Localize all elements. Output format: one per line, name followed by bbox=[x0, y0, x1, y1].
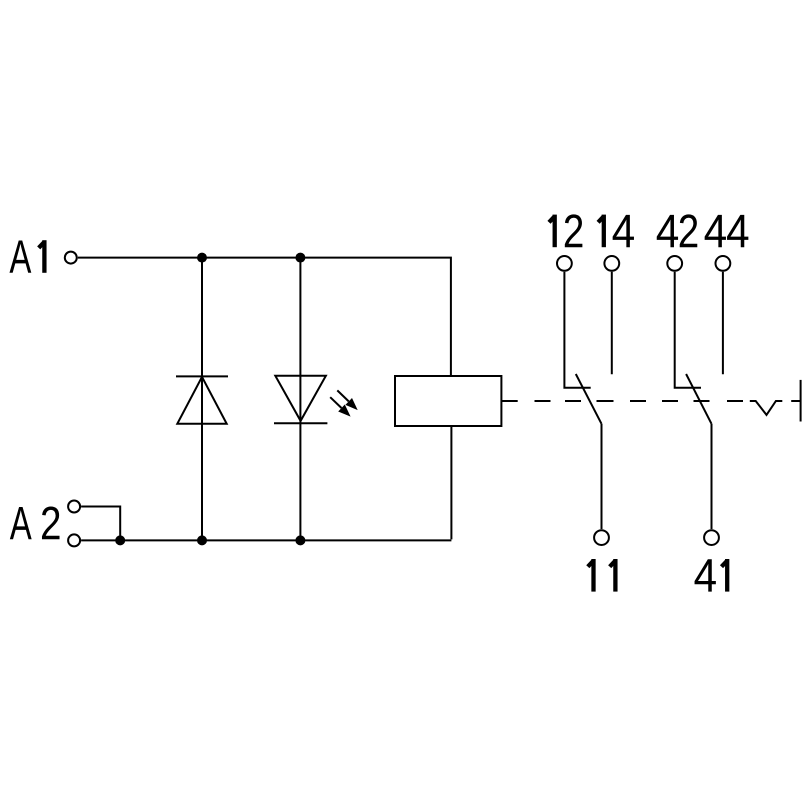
terminal 42 bbox=[667, 256, 682, 271]
wire diode branch bbox=[201, 258, 203, 541]
suppression diode V1 bbox=[176, 376, 228, 423]
terminal 12 bbox=[557, 256, 572, 271]
terminal A1 bbox=[65, 252, 77, 264]
junction A2 link bbox=[115, 535, 125, 545]
terminal label A1 bbox=[9, 240, 44, 273]
LED indicator bbox=[274, 376, 327, 424]
wire 42 fixed contact bbox=[675, 272, 701, 388]
pin label 44 bbox=[705, 215, 749, 247]
contact blade 42-41 bbox=[686, 374, 711, 424]
terminal A2 lower bbox=[68, 534, 80, 546]
junction LED top bbox=[295, 253, 305, 263]
pin label 41 bbox=[695, 559, 728, 592]
wire 11 common bbox=[601, 424, 603, 529]
wire 14 fixed contact bbox=[611, 272, 613, 374]
terminal 44 bbox=[716, 256, 731, 271]
terminal 11 bbox=[594, 530, 609, 545]
linkage chevron bbox=[750, 401, 783, 415]
linkage stub from coil bbox=[501, 400, 517, 402]
pin label 14 bbox=[598, 215, 634, 248]
linkage end bar bbox=[800, 380, 802, 422]
wire A2 upper link bbox=[81, 507, 120, 541]
relay coil K1 bbox=[395, 376, 501, 426]
LED light arrows bbox=[330, 390, 358, 416]
contact blade 12-11 bbox=[576, 374, 602, 424]
linkage end dash bbox=[791, 400, 800, 402]
junction diode top bbox=[197, 253, 207, 263]
junction diode bottom bbox=[197, 535, 207, 545]
pin label 11 bbox=[588, 559, 616, 592]
mechanical linkage dashed line bbox=[535, 400, 744, 402]
wire LED branch bbox=[299, 258, 301, 541]
wire coil bottom bbox=[450, 426, 452, 539]
wire A1 rail to coil bbox=[78, 258, 451, 375]
pin label 42 bbox=[657, 214, 698, 247]
terminal label A2 bbox=[10, 506, 60, 539]
wire A2 rail bbox=[81, 539, 451, 541]
junction LED bottom bbox=[295, 535, 305, 545]
wire 12 fixed contact bbox=[564, 272, 590, 388]
terminal 41 bbox=[704, 530, 719, 545]
wire 41 common bbox=[711, 424, 713, 529]
wire 44 fixed contact bbox=[722, 272, 724, 374]
terminal A2 upper bbox=[68, 501, 80, 513]
pin label 12 bbox=[549, 214, 582, 247]
terminal 14 bbox=[604, 256, 619, 271]
